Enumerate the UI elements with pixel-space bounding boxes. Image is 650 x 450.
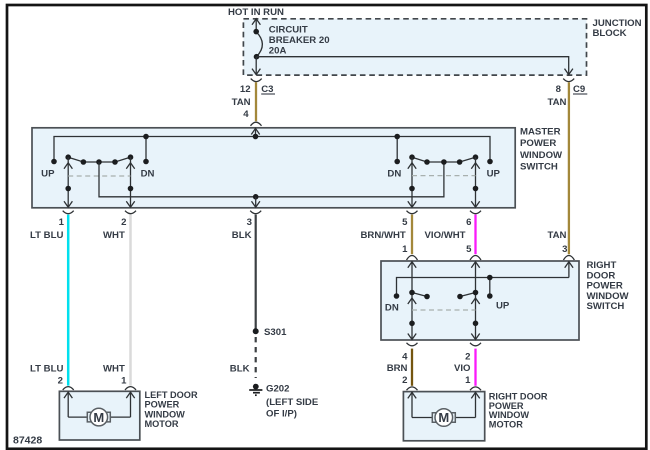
wire WHT pin2 to motor [129, 215, 132, 386]
connector cup pin 1 [63, 211, 74, 214]
right rocker pole 2 wire to pin 6 [471, 157, 479, 207]
svg-text:TAN: TAN [547, 230, 566, 241]
circuit breaker node bottom [254, 54, 260, 60]
right switch pole 2 wire pin5-pin2 [460, 262, 480, 340]
svg-text:DN: DN [385, 302, 399, 313]
left rocker pole 2 wire to pin 2 [126, 157, 134, 207]
left motor pin 2 entry arrow + wire [64, 392, 87, 417]
connector C9 pin 8 cup [563, 79, 574, 82]
wire BLK pin3 to S301 [255, 215, 257, 332]
svg-text:M: M [438, 410, 449, 425]
svg-text:MOTOR: MOTOR [489, 420, 523, 430]
svg-text:5: 5 [466, 244, 472, 255]
svg-text:BRN: BRN [387, 363, 408, 374]
contact DN left [143, 159, 149, 165]
svg-text:(LEFT SIDE: (LEFT SIDE [266, 397, 319, 408]
wire TAN C3 to master switch pin 4 [255, 82, 257, 121]
right motor pin 1 entry arrow + wire [455, 392, 479, 417]
wire breaker to C9 exit [257, 57, 573, 75]
left rocker bridge [68, 157, 130, 162]
svg-text:LT BLU: LT BLU [30, 230, 63, 241]
right door power window motor box M2 [403, 392, 484, 441]
top bus wire [54, 137, 490, 162]
wire BRN right switch to motor [411, 349, 413, 386]
ground bus wire [99, 162, 444, 197]
svg-text:1: 1 [59, 217, 65, 228]
svg-text:1: 1 [121, 376, 127, 387]
wire DN left drop [145, 137, 147, 162]
svg-text:4: 4 [243, 109, 249, 120]
svg-text:MOTOR: MOTOR [145, 419, 179, 429]
connector cup pin 6 [470, 211, 481, 214]
wire VIO/WHT pin6 to right switch [474, 215, 476, 255]
svg-text:2: 2 [402, 375, 407, 386]
svg-text:VIO/WHT: VIO/WHT [425, 230, 466, 241]
svg-text:UP: UP [41, 169, 55, 180]
svg-text:UP: UP [496, 301, 510, 312]
svg-text:3: 3 [247, 217, 252, 228]
connector cup right switch pin 2 [470, 343, 481, 346]
left motor symbol [87, 408, 110, 426]
svg-text:4: 4 [402, 351, 408, 362]
contact UP right switch [487, 293, 493, 299]
master switch pin 4 entry arc [251, 122, 262, 126]
circuit breaker 20 [252, 19, 262, 57]
svg-text:BLK: BLK [230, 364, 250, 375]
svg-text:87428: 87428 [13, 434, 42, 446]
right motor entry arc pin 2 [407, 387, 418, 390]
junction block box [243, 19, 586, 75]
svg-text:WINDOW: WINDOW [520, 150, 563, 161]
wire VIO right switch to motor [474, 349, 476, 386]
node pin4/bus junction [253, 134, 259, 140]
wire BLK S301 to G202 (dashed) [255, 337, 257, 378]
wire breaker to C3 exit [252, 57, 260, 75]
wire LT BLU pin1 to motor [67, 215, 70, 386]
svg-text:2: 2 [465, 351, 470, 362]
svg-text:POWER: POWER [145, 400, 180, 410]
svg-text:LT BLU: LT BLU [30, 363, 63, 374]
svg-text:POWER: POWER [520, 138, 556, 149]
left motor entry arc pin 2 [63, 387, 74, 390]
svg-text:LEFT DOOR: LEFT DOOR [145, 390, 198, 400]
svg-text:SWITCH: SWITCH [520, 161, 558, 172]
svg-text:6: 6 [466, 217, 471, 228]
svg-text:WHT: WHT [103, 363, 125, 374]
svg-text:DN: DN [387, 169, 401, 180]
svg-text:2: 2 [58, 376, 63, 387]
right motor pin 2 entry arrow + wire [408, 392, 433, 417]
svg-text:12: 12 [240, 84, 251, 95]
contact DN right [394, 159, 400, 165]
contact UP right [487, 159, 493, 165]
wire DN right drop [396, 137, 398, 162]
svg-text:CIRCUIT: CIRCUIT [269, 24, 308, 35]
connector cup pin 3 [250, 211, 261, 214]
svg-text:G202: G202 [266, 384, 289, 395]
right door switch entry arcs [407, 256, 418, 261]
pin 3 exit arrow [252, 197, 260, 208]
svg-text:TAN: TAN [232, 97, 251, 108]
right motor entry arc pin 1 [470, 387, 481, 390]
svg-text:5: 5 [402, 217, 408, 228]
svg-text:M: M [93, 410, 104, 425]
master power window switch box U1 [32, 128, 515, 208]
right motor symbol [432, 409, 455, 427]
svg-text:TAN: TAN [547, 97, 566, 108]
svg-text:1: 1 [465, 375, 471, 386]
svg-text:BRN/WHT: BRN/WHT [361, 230, 406, 241]
svg-text:MASTER: MASTER [520, 127, 561, 138]
svg-text:SWITCH: SWITCH [587, 301, 625, 312]
svg-text:UP: UP [487, 169, 501, 180]
connector cup right switch pin 4 [407, 343, 418, 346]
connector C3 pin 12 cup [251, 79, 262, 82]
ground G202 [253, 384, 259, 390]
svg-text:OF I/P): OF I/P) [266, 409, 297, 420]
svg-text:HOT IN RUN: HOT IN RUN [228, 7, 284, 18]
svg-text:WHT: WHT [103, 230, 125, 241]
svg-text:WINDOW: WINDOW [145, 409, 186, 419]
svg-text:BREAKER 20: BREAKER 20 [269, 35, 330, 46]
svg-text:20A: 20A [269, 46, 287, 57]
svg-text:S301: S301 [264, 327, 287, 338]
connector cup pin 2 [125, 211, 136, 214]
right switch pole 1 wire pin1-pin4 [408, 262, 427, 340]
svg-text:BLK: BLK [232, 230, 252, 241]
right rocker mechanical link [412, 175, 476, 177]
svg-text:8: 8 [556, 84, 562, 95]
svg-text:3: 3 [562, 244, 567, 255]
right rocker pole 1 wire to pin 5 [408, 157, 416, 207]
splice S301 [253, 328, 259, 334]
right rocker bridge [412, 157, 476, 162]
right door power window switch box U2 [381, 261, 579, 340]
svg-text:1: 1 [402, 244, 408, 255]
contact DN right switch [394, 293, 400, 299]
left motor pin 1 entry arrow + wire [110, 392, 134, 417]
pin 4 entry arrow [251, 128, 259, 136]
node TAN feed / UP drop [487, 275, 493, 281]
node ground bus / pin 3 [253, 194, 259, 200]
svg-text:2: 2 [121, 217, 126, 228]
wire TAN C9 to right door switch pin 3 [568, 82, 570, 254]
svg-text:VIO: VIO [454, 363, 471, 374]
svg-text:BLOCK: BLOCK [593, 28, 627, 39]
contact UP left [51, 159, 57, 165]
circuit breaker node top [253, 29, 259, 35]
left door power window motor box M1 [59, 391, 139, 440]
right switch mechanical link [412, 309, 476, 311]
left rocker mechanical link [68, 175, 130, 177]
wire BRN/WHT pin5 to right switch [411, 215, 413, 255]
left rocker pole 1 wire to pin 1 [64, 157, 72, 207]
right switch pin 3 entry arrow + TAN feed [397, 262, 574, 296]
connector cup pin 5 [407, 211, 418, 214]
svg-text:DN: DN [141, 169, 155, 180]
left motor entry arc pin 1 [125, 387, 136, 390]
